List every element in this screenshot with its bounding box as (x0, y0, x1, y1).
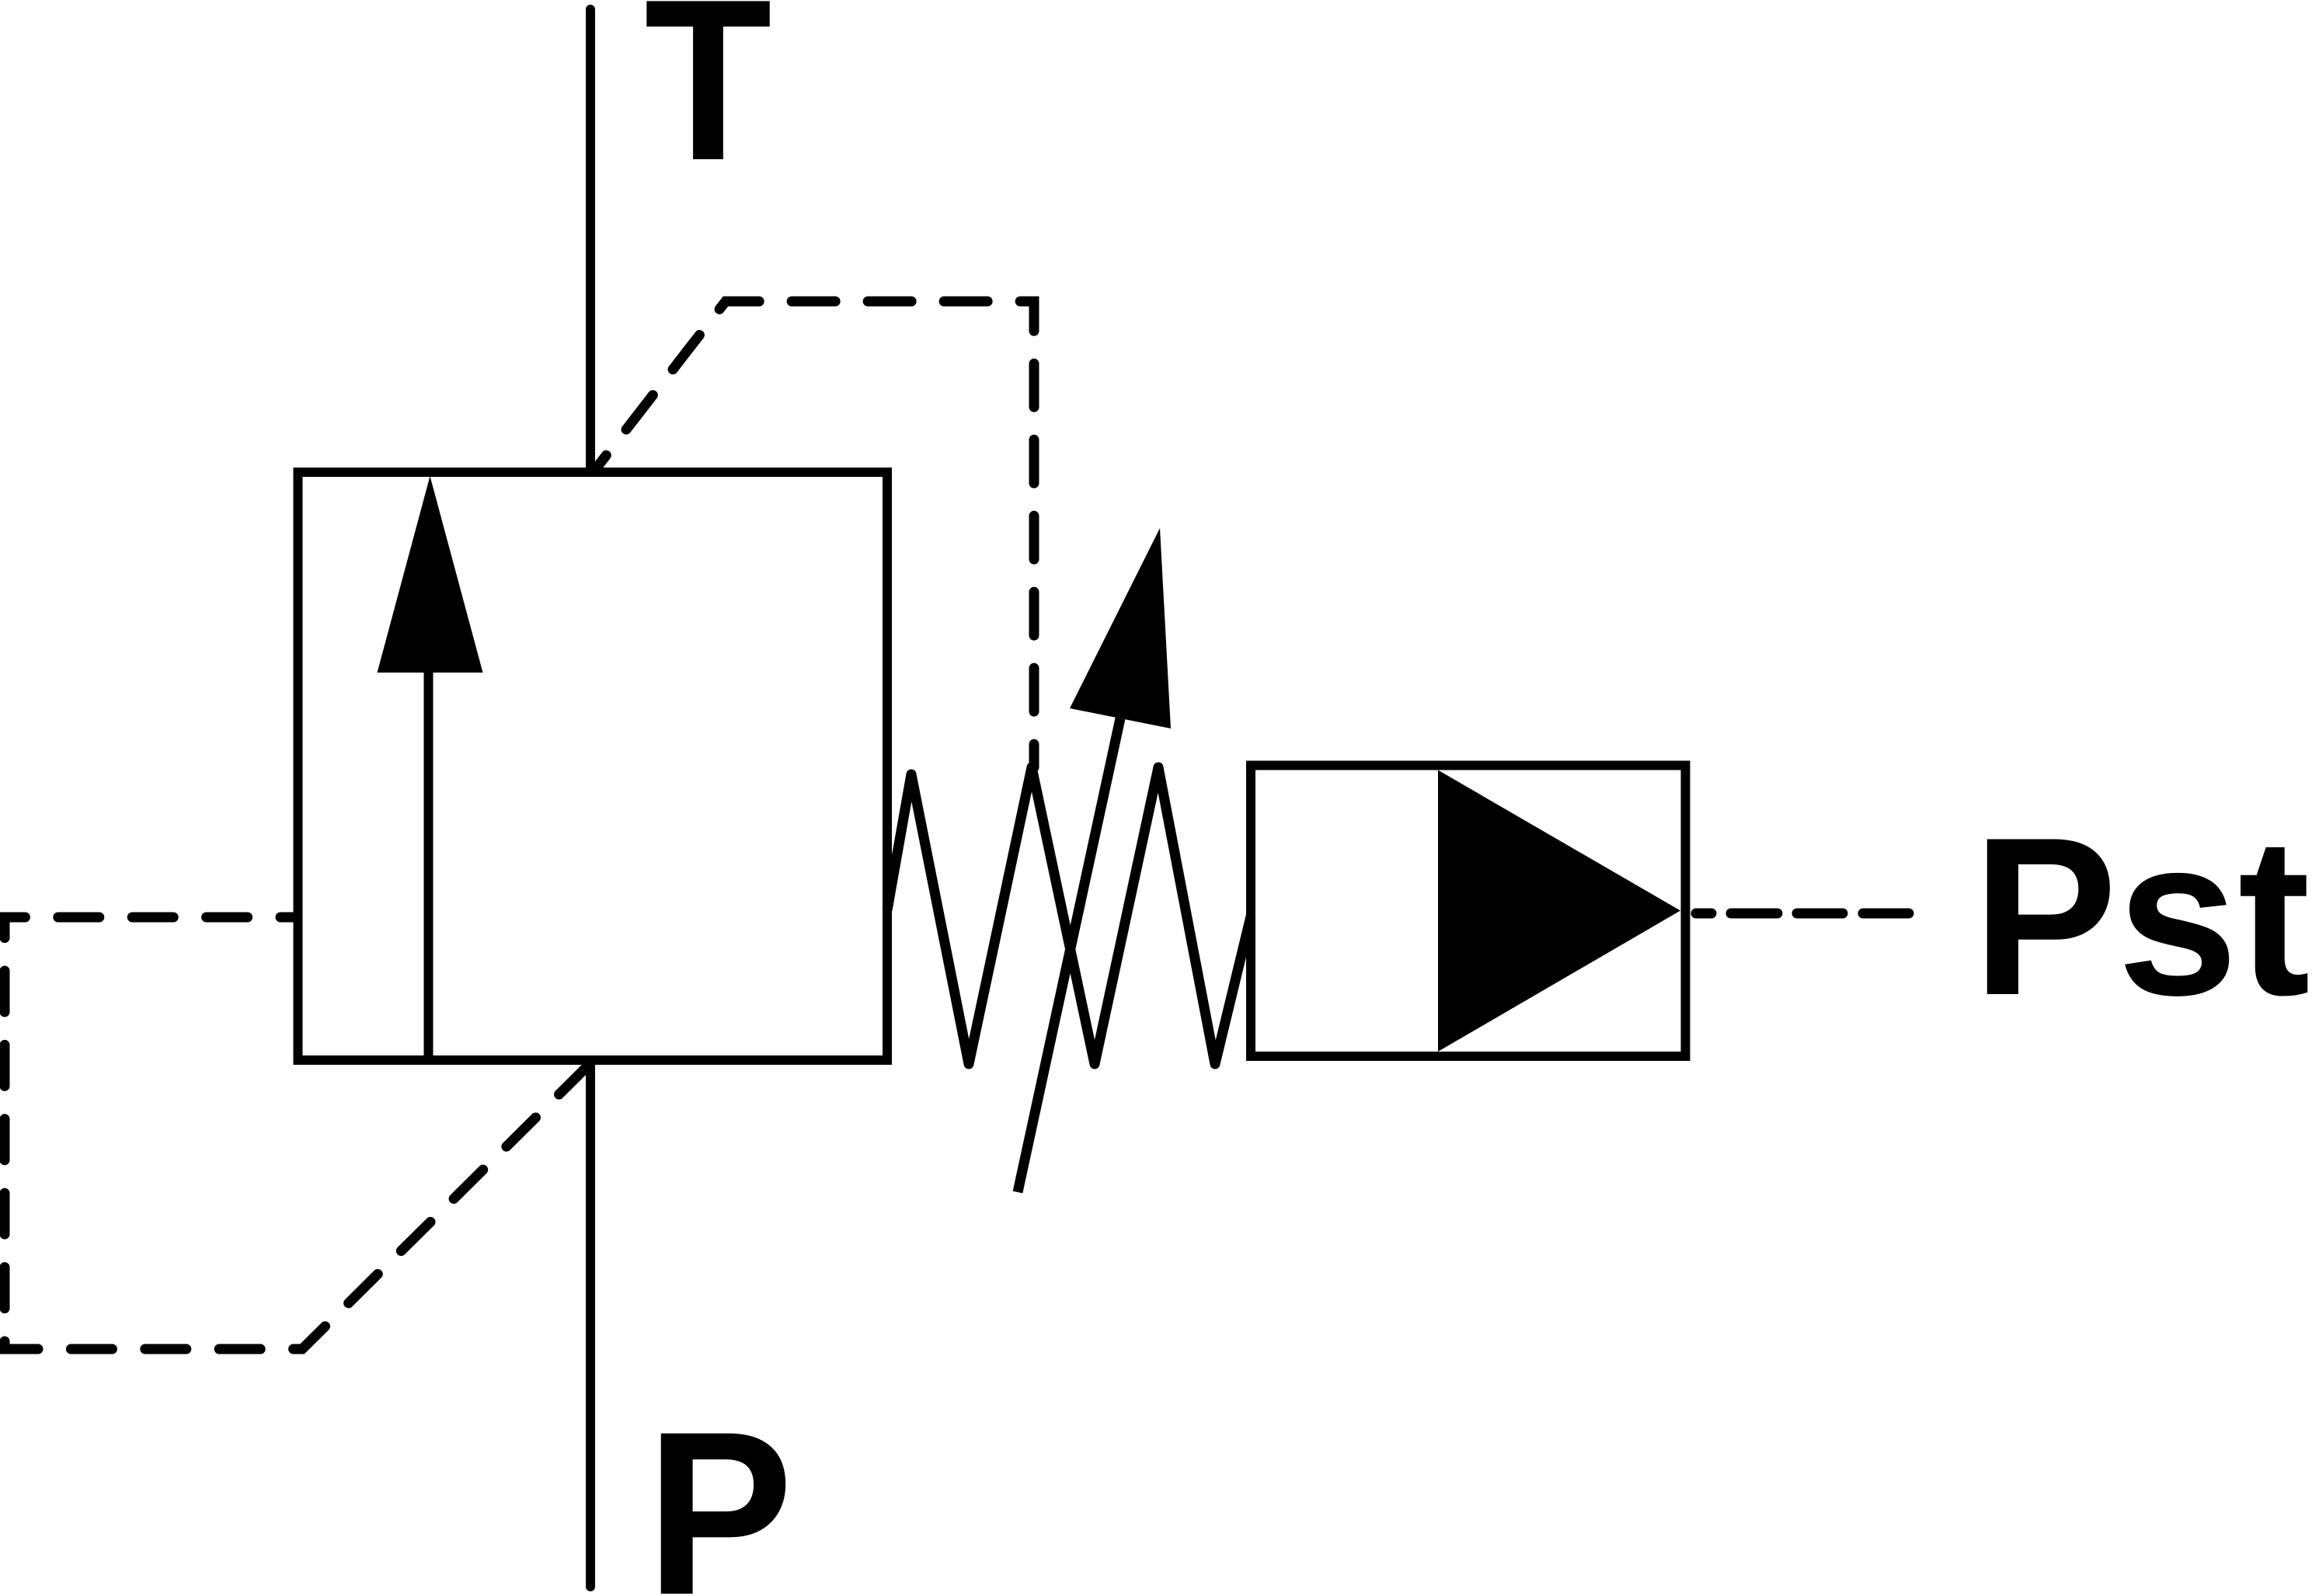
pilot pressure triangle (1438, 770, 1680, 1052)
wire T port line (586, 9, 595, 472)
pilot line dashed from T junction to spring chamber (594, 301, 1034, 767)
pilot line dashed to Pst dash 3 (1797, 909, 1843, 919)
valve body square V1 (298, 472, 888, 1060)
svg-text:Pst: Pst (1973, 791, 2310, 1042)
svg-text:T: T (644, 0, 771, 208)
svg-text:P: P (646, 1383, 793, 1596)
pilot line dashed to Pst dash 2 (1731, 909, 1778, 919)
pilot line dashed to Pst dash 1 (1696, 909, 1711, 919)
flow arrow stem inside valve (424, 671, 433, 1059)
pilot line dashed from valve left side to P junction (5, 917, 588, 1349)
pilot line dashed to Pst dash 4 (1863, 909, 1909, 919)
adjustment arrow shaft (1018, 718, 1120, 1192)
adjustment arrow head (1070, 528, 1171, 728)
flow arrow head inside valve (378, 476, 483, 673)
pilot box (1251, 766, 1686, 1057)
spring (adjustable) (887, 767, 1251, 1064)
wire P port line (586, 1065, 595, 1587)
